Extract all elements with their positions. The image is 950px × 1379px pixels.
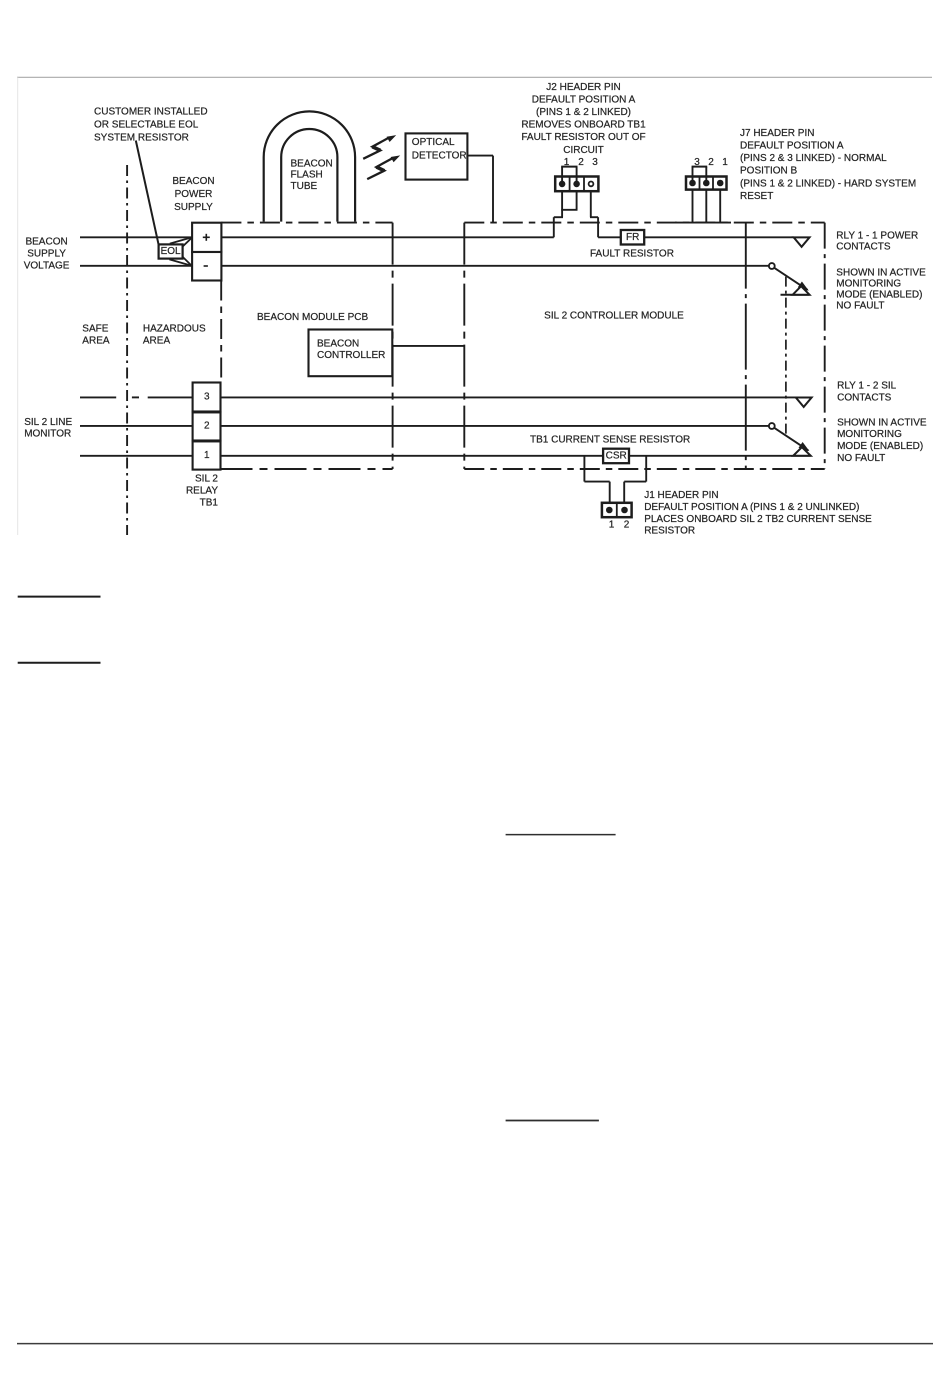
svg-text:RESISTOR: RESISTOR (644, 526, 695, 537)
svg-text:DEFAULT POSITION A: DEFAULT POSITION A (532, 94, 636, 105)
svg-text:J1 HEADER PIN: J1 HEADER PIN (644, 490, 718, 501)
svg-text:OPTICAL: OPTICAL (412, 137, 455, 148)
svg-text:SHOWN IN ACTIVE: SHOWN IN ACTIVE (836, 267, 926, 278)
svg-text:RLY 1 - 1 POWER: RLY 1 - 1 POWER (836, 231, 918, 242)
svg-text:1: 1 (722, 157, 728, 168)
svg-text:SYSTEM RESISTOR: SYSTEM RESISTOR (94, 133, 189, 144)
svg-text:NO FAULT: NO FAULT (837, 453, 885, 464)
svg-text:TB1 CURRENT SENSE RESISTOR: TB1 CURRENT SENSE RESISTOR (530, 435, 690, 446)
svg-text:RESET: RESET (740, 191, 773, 202)
svg-text:PLACES ONBOARD SIL 2 TB2 CURRE: PLACES ONBOARD SIL 2 TB2 CURRENT SENSE (644, 514, 872, 525)
svg-text:2: 2 (708, 157, 714, 168)
svg-text:2: 2 (204, 421, 210, 432)
svg-text:RELAY: RELAY (186, 486, 218, 497)
svg-text:SIL 2 CONTROLLER MODULE: SIL 2 CONTROLLER MODULE (544, 310, 684, 321)
svg-text:SUPPLY: SUPPLY (174, 202, 213, 213)
svg-text:3: 3 (204, 392, 210, 403)
svg-text:1: 1 (204, 450, 210, 461)
svg-text:CIRCUIT: CIRCUIT (563, 145, 604, 156)
svg-text:TUBE: TUBE (291, 181, 318, 192)
svg-text:POSITION B: POSITION B (740, 166, 798, 177)
svg-text:CONTACTS: CONTACTS (837, 393, 892, 404)
svg-text:MONITOR: MONITOR (24, 429, 71, 440)
svg-text:SUPPLY: SUPPLY (27, 248, 66, 259)
svg-text:BEACON: BEACON (291, 158, 333, 169)
svg-text:J2 HEADER PIN: J2 HEADER PIN (546, 82, 620, 93)
svg-text:CONTROLLER: CONTROLLER (317, 350, 385, 361)
svg-text:AREA: AREA (82, 336, 110, 347)
svg-text:AREA: AREA (143, 336, 171, 347)
svg-text:MODE (ENABLED): MODE (ENABLED) (837, 441, 923, 452)
svg-text:SIL 2: SIL 2 (195, 474, 218, 485)
svg-text:REMOVES ONBOARD TB1: REMOVES ONBOARD TB1 (521, 120, 646, 131)
svg-text:3: 3 (592, 157, 598, 168)
svg-text:SAFE: SAFE (82, 323, 108, 334)
svg-text:DETECTOR: DETECTOR (412, 151, 467, 162)
svg-text:1: 1 (609, 520, 615, 531)
svg-text:FAULT RESISTOR: FAULT RESISTOR (590, 249, 674, 260)
svg-text:SHOWN IN ACTIVE: SHOWN IN ACTIVE (837, 417, 927, 428)
svg-text:FAULT RESISTOR OUT OF: FAULT RESISTOR OUT OF (521, 132, 645, 143)
svg-text:VOLTAGE: VOLTAGE (24, 261, 70, 272)
svg-text:OR SELECTABLE EOL: OR SELECTABLE EOL (94, 120, 199, 131)
svg-text:DEFAULT POSITION A (PINS 1 & 2: DEFAULT POSITION A (PINS 1 & 2 UNLINKED) (644, 502, 859, 513)
svg-text:2: 2 (578, 157, 584, 168)
svg-text:CUSTOMER INSTALLED: CUSTOMER INSTALLED (94, 107, 208, 118)
svg-text:J7 HEADER PIN: J7 HEADER PIN (740, 128, 814, 139)
svg-text:(PINS 2 & 3 LINKED) - NORMAL: (PINS 2 & 3 LINKED) - NORMAL (740, 153, 887, 164)
svg-text:BEACON: BEACON (172, 176, 214, 187)
svg-text:2: 2 (624, 520, 630, 531)
svg-text:FLASH: FLASH (291, 170, 323, 181)
svg-text:(PINS 1 & 2 LINKED): (PINS 1 & 2 LINKED) (536, 107, 631, 118)
svg-text:FR: FR (626, 232, 639, 243)
svg-text:MODE (ENABLED): MODE (ENABLED) (836, 290, 922, 301)
svg-text:BEACON: BEACON (317, 338, 359, 349)
svg-text:(PINS 1 & 2 LINKED) - HARD SYS: (PINS 1 & 2 LINKED) - HARD SYSTEM (740, 178, 916, 189)
svg-text:BEACON: BEACON (25, 236, 67, 247)
svg-text:EOL: EOL (161, 246, 181, 257)
svg-text:CONTACTS: CONTACTS (836, 242, 891, 253)
svg-text:CSR: CSR (606, 450, 627, 461)
svg-text:NO FAULT: NO FAULT (836, 301, 884, 312)
svg-text:TB1: TB1 (200, 498, 219, 509)
svg-text:HAZARDOUS: HAZARDOUS (143, 323, 206, 334)
svg-text:DEFAULT POSITION A: DEFAULT POSITION A (740, 141, 844, 152)
svg-text:SIL 2 LINE: SIL 2 LINE (24, 417, 72, 428)
svg-text:BEACON MODULE PCB: BEACON MODULE PCB (257, 312, 368, 323)
svg-text:POWER: POWER (175, 189, 213, 200)
svg-text:RLY 1 - 2 SIL: RLY 1 - 2 SIL (837, 380, 897, 391)
svg-text:MONITORING: MONITORING (836, 278, 901, 289)
svg-text:MONITORING: MONITORING (837, 429, 902, 440)
